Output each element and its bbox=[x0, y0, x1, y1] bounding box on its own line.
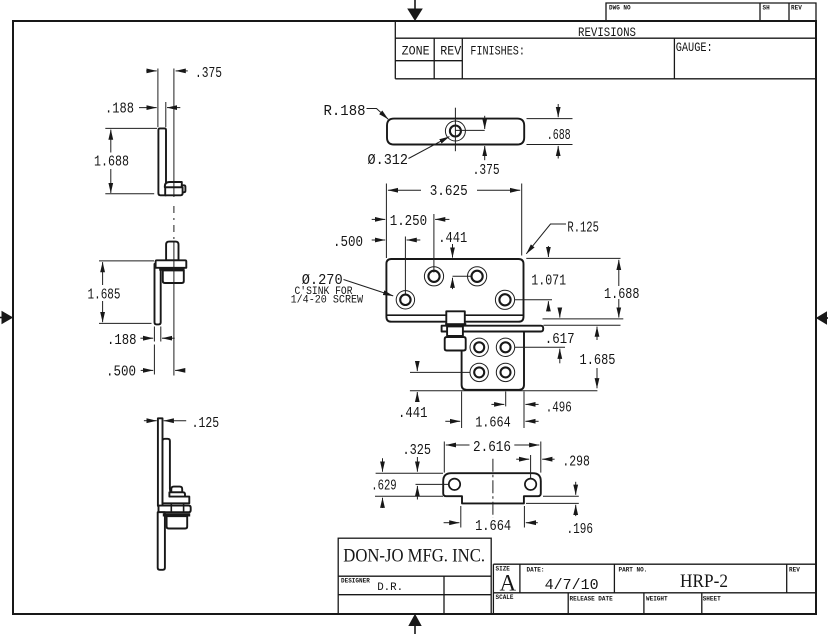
dim 3.625 right extension bbox=[521, 184, 523, 256]
dim .188 v2 right arrow bbox=[162, 337, 175, 339]
svg-text:.500: .500 bbox=[333, 234, 363, 251]
hole D inner bbox=[499, 294, 510, 305]
dim 1.071 top extension bbox=[526, 257, 620, 259]
hole H3 outer bbox=[470, 363, 488, 381]
dim .441 bottom upper arrow bbox=[416, 361, 418, 371]
svg-text:.375: .375 bbox=[473, 162, 500, 179]
dim 1.685 main top extension bbox=[544, 324, 621, 326]
dim .325 down arrow bbox=[416, 457, 418, 472]
dim .188 v1 left arrow bbox=[139, 107, 157, 109]
dim 1.664 main left arrow bbox=[445, 420, 460, 422]
svg-text:.688: .688 bbox=[547, 127, 571, 144]
right centering arrow bbox=[816, 311, 828, 324]
dim .617 lower arrow bbox=[559, 349, 561, 364]
main view: pin tab below washer bbox=[447, 326, 463, 336]
main view: pin tab through plate bbox=[446, 311, 465, 324]
dim 1.685 v2 bottom extension bbox=[99, 322, 152, 324]
svg-text:DON-JO MFG. INC.: DON-JO MFG. INC. bbox=[343, 546, 485, 567]
dim 1.688 v1 upper line and arrow bbox=[110, 130, 112, 153]
svg-text:.188: .188 bbox=[105, 101, 134, 118]
svg-text:SHEET: SHEET bbox=[703, 596, 721, 603]
dim .441 bottom extension hole row2 bbox=[410, 371, 470, 373]
hole A inner bbox=[428, 271, 439, 282]
title block labels bbox=[496, 566, 801, 603]
dim .375 right arrow bbox=[176, 70, 188, 72]
side view 3: pin shank ticks bbox=[170, 504, 172, 513]
bottom view: right hole bbox=[525, 479, 536, 490]
dim 1.250 left arrow bbox=[372, 218, 386, 220]
svg-text:1.071: 1.071 bbox=[531, 273, 566, 290]
dim 1.664 bv left extension bbox=[460, 506, 462, 528]
main view: leaf bar edge-on bbox=[442, 326, 544, 332]
bottom view: vertical center line bbox=[492, 459, 494, 518]
dim .298 left arrow bbox=[516, 458, 529, 460]
main view: upper plate bend line bbox=[386, 314, 523, 316]
bottom view notch bottom extension right bbox=[526, 502, 579, 504]
dim .500 main left arrow bbox=[372, 239, 386, 241]
top view: leaf plate bbox=[387, 119, 524, 145]
dim 1.664 main right arrow bbox=[525, 420, 538, 422]
dim 1.664 bv right extension bbox=[523, 506, 525, 528]
dim 2.616 right extension bbox=[540, 442, 542, 473]
dim 1.685 main lower arrow bbox=[596, 368, 598, 388]
main view: pin nut bbox=[445, 337, 466, 350]
svg-text:DWG NO: DWG NO bbox=[609, 5, 631, 12]
side view 2: pin head bbox=[166, 242, 178, 261]
dim 3.625 left arrow bbox=[388, 189, 421, 191]
svg-text:A: A bbox=[500, 571, 517, 596]
dim 1.071 bottom extension hole D bbox=[515, 299, 553, 301]
side view 3: long leaf upper bar bbox=[158, 418, 163, 506]
svg-text:2.616: 2.616 bbox=[473, 439, 511, 456]
top strip labels bbox=[609, 5, 802, 12]
dim .375 tv lower arrow bbox=[484, 146, 486, 160]
dim .375 tv upper arrow bbox=[484, 116, 486, 129]
svg-text:.188: .188 bbox=[107, 332, 137, 349]
hole H4 outer bbox=[496, 363, 514, 381]
hole H4 inner bbox=[501, 367, 511, 377]
dim .188 v1 right arrow bbox=[167, 107, 180, 109]
dim 1.685 v2 top extension bbox=[99, 260, 154, 262]
hole C countersink outer bbox=[396, 291, 414, 309]
dim .688 bottom extension bbox=[527, 144, 573, 146]
top view: hole inner circle bbox=[450, 126, 461, 137]
svg-text:PART NO.: PART NO. bbox=[619, 567, 648, 574]
side view 2: knuckle nut bbox=[163, 270, 184, 283]
dim .496 hole col extension bbox=[505, 392, 507, 407]
hole H1 inner bbox=[474, 342, 484, 352]
dim 1.685 v2 lower line and arrow bbox=[102, 301, 104, 322]
svg-text:.375: .375 bbox=[195, 65, 222, 82]
svg-text:1.250: 1.250 bbox=[390, 213, 428, 230]
dim .500 main right arrow bbox=[407, 239, 421, 241]
title block designer cell bbox=[341, 578, 403, 595]
svg-text:3.625: 3.625 bbox=[430, 183, 468, 200]
svg-text:REV: REV bbox=[440, 44, 461, 59]
svg-text:1.688: 1.688 bbox=[604, 286, 640, 303]
svg-text:1.688: 1.688 bbox=[94, 154, 129, 171]
dim .441 bottom lower arrow bbox=[416, 392, 418, 400]
main view: lower plate bbox=[462, 332, 524, 390]
hole H2 inner bbox=[501, 342, 511, 352]
svg-text:.441: .441 bbox=[398, 405, 428, 422]
dim 2.616 left extension bbox=[443, 442, 445, 473]
dim 1.688 v1 top extension bbox=[105, 127, 157, 129]
dim .125 extension line bbox=[162, 419, 164, 437]
side view 1: knuckle upper bbox=[165, 182, 182, 187]
svg-text:.325: .325 bbox=[403, 442, 432, 459]
svg-text:.196: .196 bbox=[567, 521, 594, 538]
dim 3.625 right arrow bbox=[477, 189, 520, 191]
svg-text:1.685: 1.685 bbox=[88, 287, 121, 304]
svg-text:.629: .629 bbox=[371, 478, 397, 495]
dim 1.688 main lower arrow bbox=[618, 299, 620, 318]
dim 1.664 bv right arrow bbox=[526, 522, 538, 524]
top view: hole outer circle bbox=[445, 121, 465, 141]
revisions table lines bbox=[395, 21, 816, 79]
side view 2: flange bbox=[156, 260, 187, 268]
svg-text:DATE:: DATE: bbox=[527, 567, 545, 574]
dim .125 right arrow bbox=[164, 420, 187, 422]
title block right section lines bbox=[493, 564, 816, 614]
dim 1.688 v1 bottom extension bbox=[105, 193, 154, 195]
side view 3: pin bump upper bbox=[171, 487, 182, 493]
side view 3: short leaf with foot bbox=[163, 439, 190, 504]
svg-text:1.664: 1.664 bbox=[475, 415, 511, 432]
dim .688 upper arrow bbox=[557, 104, 559, 117]
svg-text:Ø.312: Ø.312 bbox=[368, 152, 409, 169]
svg-text:.125: .125 bbox=[192, 415, 220, 432]
hole D outer bbox=[495, 290, 514, 309]
dim 2.616 right arrow bbox=[514, 444, 539, 446]
svg-text:4/7/10: 4/7/10 bbox=[545, 577, 599, 594]
dim .375 left arrow bbox=[146, 70, 157, 72]
main view: upper plate bbox=[386, 259, 523, 322]
dim .441 top pointer to hole B bbox=[453, 275, 471, 277]
dim .496 right arrow bbox=[525, 403, 538, 405]
hole H2 outer bbox=[496, 338, 514, 356]
hole H1 outer bbox=[470, 338, 488, 356]
label R.125 leader bbox=[526, 224, 566, 254]
top centering arrow bbox=[407, 0, 423, 21]
dim .441 top down arrow bbox=[452, 244, 454, 258]
side view 3: pin bump lower bbox=[169, 492, 185, 496]
dim 1.685 main upper arrow bbox=[596, 327, 598, 340]
svg-text:WEIGHT: WEIGHT bbox=[646, 596, 668, 603]
dim .375/.188 extension line left face bbox=[157, 69, 159, 128]
label dia .312 leader bbox=[409, 137, 450, 159]
dim 2.616 left arrow bbox=[446, 444, 470, 446]
dim .500 extension hole C bbox=[404, 237, 406, 295]
dim .629 up arrow bbox=[382, 498, 384, 508]
dim .188 v2 left arrow bbox=[140, 337, 153, 339]
side view 3: washer black band bbox=[163, 513, 190, 516]
dim 1.250 extension hole A bbox=[433, 214, 435, 273]
dim 1.688 main bottom extension bbox=[543, 318, 624, 320]
top view: hole vertical center line bbox=[454, 108, 456, 152]
svg-text:REVISIONS: REVISIONS bbox=[578, 25, 636, 40]
top strip dwg-no/sh/rev box bbox=[606, 3, 816, 21]
svg-text:REV: REV bbox=[791, 5, 802, 12]
svg-text:.617: .617 bbox=[545, 331, 575, 348]
dim .375 tv horizontal pointer bbox=[455, 129, 484, 131]
label dia .270 leader bbox=[344, 280, 394, 296]
dim .196 up arrow bbox=[575, 505, 577, 516]
hinge pin center line lower bbox=[173, 242, 175, 376]
dim .441 top inside up arrow bbox=[452, 278, 454, 289]
svg-text:FINISHES:: FINISHES: bbox=[470, 44, 525, 59]
bottom centering arrow bbox=[408, 614, 421, 634]
svg-text:.500: .500 bbox=[106, 364, 136, 381]
dim 1.664 main right extension bbox=[523, 392, 525, 429]
dim 1.071 upper arrow bbox=[547, 246, 549, 257]
svg-text:1.664: 1.664 bbox=[475, 518, 511, 535]
side view 3: pin nut bbox=[167, 516, 188, 528]
svg-text:ZONE: ZONE bbox=[402, 44, 430, 59]
svg-text:1/4-20 SCREW: 1/4-20 SCREW bbox=[291, 295, 364, 307]
dim .325 up arrow bbox=[416, 486, 418, 500]
hole A outer bbox=[424, 267, 443, 286]
dim .188 v1 extension right face bbox=[165, 102, 167, 127]
bottom view plate bottom extension left bbox=[375, 495, 443, 497]
dim 1.664 bv left arrow bbox=[444, 522, 460, 524]
dim 1.071 lower arrow bbox=[547, 301, 549, 311]
dim .496 left arrow bbox=[491, 403, 504, 405]
dim 1.664 main left extension bbox=[461, 392, 463, 429]
bottom view hole center extension bbox=[416, 483, 449, 485]
dim .196 down arrow bbox=[575, 482, 577, 495]
side view 1: top leaf profile bar bbox=[158, 128, 166, 195]
left centering arrow bbox=[0, 311, 13, 324]
svg-text:.298: .298 bbox=[562, 454, 590, 471]
dim .617 upper arrow bbox=[559, 310, 561, 318]
dim .298 hole extension bbox=[530, 455, 532, 479]
svg-text:GAUGE:: GAUGE: bbox=[676, 40, 713, 55]
dim 1.688 main upper arrow bbox=[618, 260, 620, 286]
hole B outer bbox=[468, 267, 487, 286]
dim .617 extension hole row1 bbox=[515, 346, 566, 348]
hinge pin center line upper bbox=[173, 69, 175, 198]
svg-text:1.685: 1.685 bbox=[580, 352, 616, 369]
dim .629 down arrow bbox=[382, 458, 384, 472]
dim .500 v2 right arrow bbox=[175, 369, 185, 371]
dim .500 v2 left extension bbox=[153, 345, 155, 375]
svg-text:R.125: R.125 bbox=[567, 220, 599, 237]
side view 3: lower knuckle band bbox=[159, 506, 191, 513]
svg-text:HRP-2: HRP-2 bbox=[680, 571, 728, 592]
side view 1: knuckle pin end bbox=[182, 185, 186, 192]
svg-text:SH: SH bbox=[763, 5, 771, 12]
label R.188 leader bbox=[367, 109, 389, 120]
dim .188 v2 extension lines bbox=[153, 327, 155, 342]
hole C inner bbox=[400, 295, 410, 305]
revisions table text bbox=[402, 25, 713, 59]
dim 1.250 right arrow bbox=[435, 218, 449, 220]
dim 1.688 v1 lower line and arrow bbox=[110, 169, 112, 193]
svg-text:DESIGNER: DESIGNER bbox=[341, 578, 370, 585]
side view 1: knuckle base bbox=[165, 187, 182, 195]
side view 2: leaf bar bbox=[155, 264, 161, 324]
bottom view: left hole bbox=[449, 479, 460, 490]
svg-text:D.R.: D.R. bbox=[377, 582, 403, 594]
bottom view plate top extension bbox=[376, 472, 443, 474]
hole H3 inner bbox=[474, 367, 484, 377]
hole B inner bbox=[472, 271, 483, 282]
dim 1.685 v2 upper line and arrow bbox=[102, 262, 104, 285]
bottom view plate bottom extension right bbox=[543, 495, 579, 497]
svg-text:REV: REV bbox=[789, 567, 800, 574]
svg-text:.496: .496 bbox=[546, 400, 572, 417]
side view 3: long leaf lower bar bbox=[158, 512, 165, 570]
main view: washer black band bbox=[445, 323, 466, 326]
dim .500 v2 left arrow bbox=[141, 369, 154, 371]
bottom view: leaf outline with notch bbox=[443, 473, 541, 503]
title block don-jo box lines bbox=[338, 538, 491, 614]
dim .688 lower arrow bbox=[557, 146, 559, 159]
svg-text:RELEASE DATE: RELEASE DATE bbox=[570, 596, 614, 603]
dim .298 right arrow bbox=[542, 458, 554, 460]
svg-text:R.188: R.188 bbox=[324, 103, 366, 120]
dim .688 top extension bbox=[527, 118, 573, 120]
lower plate bottom extension line bbox=[410, 390, 598, 392]
dim .125 left arrow bbox=[144, 420, 157, 422]
side view 2: washer black band bbox=[159, 267, 184, 270]
dim 3.625 left extension bbox=[385, 184, 387, 259]
